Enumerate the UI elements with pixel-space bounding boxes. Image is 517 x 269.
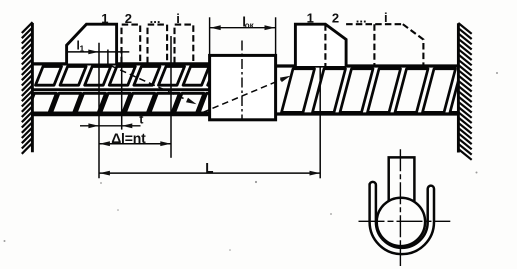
left wall hatching bbox=[22, 22, 33, 154]
svg-text:...: ... bbox=[150, 11, 161, 26]
left dashed box position ... bbox=[148, 25, 168, 64]
right bar core lines bbox=[275, 66, 458, 114]
svg-text:i: i bbox=[176, 11, 180, 26]
dashed leader arrow (coupler to right bar) bbox=[203, 76, 291, 113]
l_ok extension lines bbox=[210, 17, 276, 54]
delta-l right extension line bbox=[170, 36, 172, 158]
coupler body bbox=[210, 55, 276, 119]
svg-text:1: 1 bbox=[101, 11, 108, 26]
delta-l label bbox=[111, 130, 146, 146]
svg-text:...: ... bbox=[356, 11, 367, 26]
right dashed chamfer and end edge position i bbox=[403, 24, 424, 66]
right label i bbox=[384, 10, 388, 25]
left dashed box position i bbox=[175, 25, 194, 64]
l_ok dimension line bbox=[210, 25, 276, 30]
section bar circle bbox=[377, 198, 425, 246]
svg-text:ок: ок bbox=[245, 21, 255, 30]
L label bbox=[205, 160, 213, 175]
left bar lower rib row bbox=[27, 93, 229, 113]
right wall bbox=[457, 23, 460, 152]
L dimension line bbox=[99, 171, 320, 176]
extension line A (position 1 mark) bbox=[98, 43, 100, 179]
svg-text:2: 2 bbox=[125, 11, 132, 26]
l_ok label bbox=[242, 15, 254, 30]
L right extension line bbox=[319, 57, 321, 179]
right wall hatching bbox=[458, 23, 471, 160]
right label ... bbox=[356, 11, 367, 26]
left bar end profile position 1 (solid pentagon) bbox=[67, 24, 117, 63]
right bar end profile position 1 (solid) bbox=[295, 24, 346, 66]
svg-text:1: 1 bbox=[307, 11, 314, 26]
scan speckles bbox=[4, 72, 499, 251]
section vertical centerline bbox=[399, 149, 401, 266]
right dashed boundary ...|i bbox=[373, 24, 375, 66]
right label 2 bbox=[332, 11, 339, 26]
svg-text:i: i bbox=[384, 10, 388, 25]
section horizontal centerline bbox=[359, 220, 451, 222]
extension line C (position 2 mark) bbox=[121, 49, 123, 130]
left bar upper rib row bbox=[36, 67, 234, 86]
l1 label bbox=[77, 39, 85, 54]
l1 dimension line bbox=[68, 50, 130, 55]
left label ... bbox=[150, 11, 161, 26]
svg-text:L: L bbox=[205, 160, 213, 175]
left label i bbox=[176, 11, 180, 26]
right label 1 bbox=[307, 11, 314, 26]
left label 2 bbox=[125, 11, 132, 26]
t label bbox=[139, 113, 144, 127]
right dashed top line bbox=[346, 23, 403, 25]
left dashed box position 2 bbox=[122, 25, 141, 64]
t dimension line with outside arrows bbox=[80, 123, 141, 128]
section top rib tab bbox=[389, 157, 415, 201]
svg-text:1: 1 bbox=[80, 44, 85, 54]
left bar core lines bbox=[32, 64, 209, 115]
coupler centerline bbox=[241, 41, 243, 120]
svg-text:2: 2 bbox=[332, 11, 339, 26]
right bar rib row bbox=[282, 69, 484, 113]
right dashed boundary 1|2 bbox=[324, 24, 326, 66]
section U-shaped coupler shell bbox=[370, 182, 434, 254]
left label 1 bbox=[101, 11, 108, 26]
svg-text:Δl=nt: Δl=nt bbox=[111, 130, 146, 146]
delta-l dimension line bbox=[99, 141, 171, 146]
left wall bbox=[31, 23, 34, 152]
extension line B (short) bbox=[107, 50, 109, 67]
dashed leader arrow (left bar into coupler) bbox=[111, 66, 197, 105]
